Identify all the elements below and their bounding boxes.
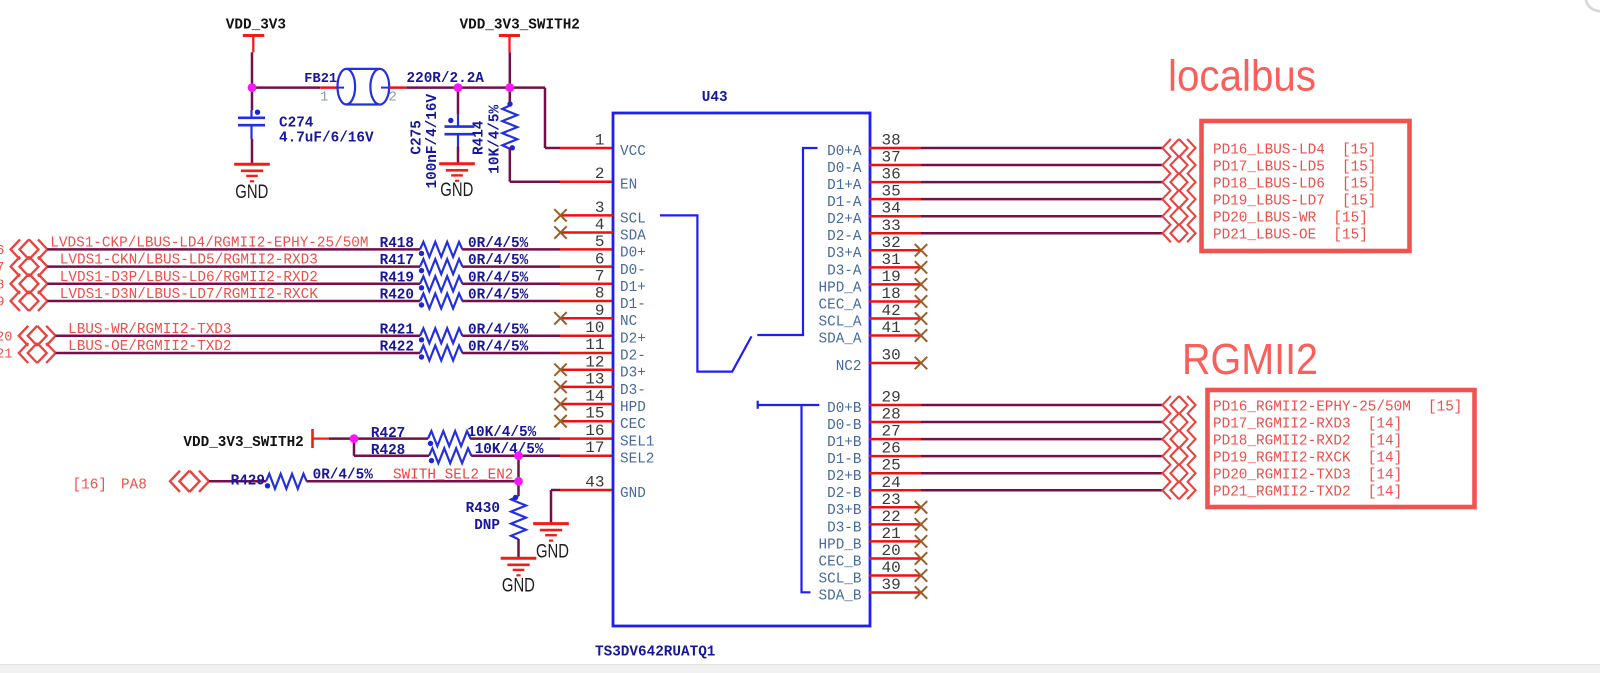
svg-text:D1+: D1+ xyxy=(620,279,646,296)
svg-text:PD16_LBUS-LD4 [15]: PD16_LBUS-LD4 [15] xyxy=(1213,141,1376,158)
svg-text:R419: R419 xyxy=(380,269,414,286)
svg-text:10K/4/5%: 10K/4/5% xyxy=(475,441,545,458)
svg-text:PD18_LBUS-LD6 [15]: PD18_LBUS-LD6 [15] xyxy=(1213,175,1376,192)
svg-text:19: 19 xyxy=(0,295,5,311)
svg-text:1: 1 xyxy=(595,132,605,150)
svg-text:D0-A: D0-A xyxy=(827,160,861,177)
svg-text:D3+A: D3+A xyxy=(827,245,861,262)
svg-text:LVDS1-CKN/LBUS-LD5/RGMII2-RXD3: LVDS1-CKN/LBUS-LD5/RGMII2-RXD3 xyxy=(60,252,318,269)
svg-text:D2-: D2- xyxy=(620,348,646,365)
svg-text:D2+: D2+ xyxy=(620,330,646,347)
svg-text:NC: NC xyxy=(620,313,637,330)
svg-text:PD19_LBUS-LD7 [15]: PD19_LBUS-LD7 [15] xyxy=(1213,192,1376,209)
svg-text:SCL: SCL xyxy=(620,210,646,227)
svg-text:D0+A: D0+A xyxy=(827,143,861,160)
svg-text:PD21_RGMII2-TXD2 [14]: PD21_RGMII2-TXD2 [14] xyxy=(1213,484,1402,501)
svg-text:VCC: VCC xyxy=(620,143,646,160)
svg-text:GND: GND xyxy=(502,576,535,597)
svg-text:17: 17 xyxy=(0,260,5,276)
svg-text:16: 16 xyxy=(0,243,5,259)
svg-text:SCL_A: SCL_A xyxy=(819,313,862,330)
svg-text:10: 10 xyxy=(585,319,604,337)
svg-text:GND: GND xyxy=(440,180,473,201)
svg-text:EN: EN xyxy=(620,177,637,194)
svg-text:NC2: NC2 xyxy=(836,358,862,375)
svg-text:R414: R414 xyxy=(471,121,488,155)
svg-text:D1-: D1- xyxy=(620,296,646,313)
svg-text:D1+A: D1+A xyxy=(827,177,861,194)
svg-text:R429: R429 xyxy=(231,472,265,489)
svg-text:VDD_3V3_SWITH2: VDD_3V3_SWITH2 xyxy=(460,17,580,34)
svg-text:SEL2: SEL2 xyxy=(620,450,654,467)
svg-text:5: 5 xyxy=(595,233,605,251)
svg-text:CEC_A: CEC_A xyxy=(819,296,862,313)
svg-text:R420: R420 xyxy=(380,287,414,304)
svg-text:20: 20 xyxy=(0,329,13,345)
svg-text:RGMII2: RGMII2 xyxy=(1182,335,1318,384)
svg-text:GND: GND xyxy=(536,542,569,563)
svg-text:7: 7 xyxy=(595,268,605,286)
svg-text:D2-A: D2-A xyxy=(827,228,861,245)
svg-text:8: 8 xyxy=(595,285,605,303)
svg-text:D2-B: D2-B xyxy=(827,485,861,502)
svg-text:2: 2 xyxy=(595,165,605,183)
svg-text:R422: R422 xyxy=(380,339,414,356)
svg-text:DNP: DNP xyxy=(474,517,500,534)
svg-text:11: 11 xyxy=(585,336,604,354)
svg-text:R418: R418 xyxy=(380,235,414,252)
svg-text:10K/4/5%: 10K/4/5% xyxy=(487,104,504,174)
svg-text:R428: R428 xyxy=(371,442,405,459)
svg-text:4.7uF/6/16V: 4.7uF/6/16V xyxy=(279,130,374,147)
svg-text:[16]: [16] xyxy=(73,476,107,493)
svg-text:HPD_A: HPD_A xyxy=(819,279,862,296)
svg-text:PD16_RGMII2-EPHY-25/50M [15]: PD16_RGMII2-EPHY-25/50M [15] xyxy=(1213,398,1462,415)
svg-text:SDA_A: SDA_A xyxy=(819,330,862,347)
svg-text:PD18_RGMII2-RXD2 [14]: PD18_RGMII2-RXD2 [14] xyxy=(1213,432,1402,449)
svg-text:PD21_LBUS-OE [15]: PD21_LBUS-OE [15] xyxy=(1213,227,1368,244)
svg-text:VDD_3V3_SWITH2: VDD_3V3_SWITH2 xyxy=(183,434,303,451)
svg-text:U43: U43 xyxy=(702,89,728,106)
svg-text:D2+A: D2+A xyxy=(827,211,861,228)
svg-text:D0-B: D0-B xyxy=(827,417,861,434)
svg-text:SEL1: SEL1 xyxy=(620,433,654,450)
svg-text:2: 2 xyxy=(388,90,397,106)
svg-text:D3+: D3+ xyxy=(620,365,646,382)
svg-text:R421: R421 xyxy=(380,321,414,338)
svg-text:LBUS-OE/RGMII2-TXD2: LBUS-OE/RGMII2-TXD2 xyxy=(68,338,231,355)
svg-text:D0+B: D0+B xyxy=(827,400,861,417)
svg-text:PD17_RGMII2-RXD3 [14]: PD17_RGMII2-RXD3 [14] xyxy=(1213,415,1402,432)
svg-text:CEC: CEC xyxy=(620,416,646,433)
svg-text:1: 1 xyxy=(320,90,329,106)
svg-text:16: 16 xyxy=(585,422,604,440)
svg-text:CEC_B: CEC_B xyxy=(819,553,862,570)
svg-text:100nF/4/16V: 100nF/4/16V xyxy=(424,94,441,189)
svg-text:D3-B: D3-B xyxy=(827,519,861,536)
svg-text:localbus: localbus xyxy=(1168,52,1316,101)
svg-text:TS3DV642RUATQ1: TS3DV642RUATQ1 xyxy=(595,643,715,660)
svg-text:SWITH_SEL2_EN2: SWITH_SEL2_EN2 xyxy=(393,467,513,484)
svg-text:FB21: FB21 xyxy=(304,71,337,87)
svg-text:SCL_B: SCL_B xyxy=(819,570,862,587)
svg-text:PD17_LBUS-LD5 [15]: PD17_LBUS-LD5 [15] xyxy=(1213,158,1376,175)
svg-text:HPD: HPD xyxy=(620,399,646,416)
svg-text:R417: R417 xyxy=(380,252,414,269)
svg-text:SDA: SDA xyxy=(620,227,646,244)
svg-text:D1+B: D1+B xyxy=(827,434,861,451)
svg-text:VDD_3V3: VDD_3V3 xyxy=(226,17,286,34)
svg-text:D2+B: D2+B xyxy=(827,468,861,485)
svg-text:17: 17 xyxy=(585,439,604,457)
svg-text:6: 6 xyxy=(595,250,605,268)
svg-text:LVDS1-CKP/LBUS-LD4/RGMII2-EPHY: LVDS1-CKP/LBUS-LD4/RGMII2-EPHY-25/50M xyxy=(50,234,368,251)
svg-text:R430: R430 xyxy=(466,500,500,517)
svg-text:D3+B: D3+B xyxy=(827,502,861,519)
svg-text:D3-A: D3-A xyxy=(827,262,861,279)
svg-text:LVDS1-D3P/LBUS-LD6/RGMII2-RXD2: LVDS1-D3P/LBUS-LD6/RGMII2-RXD2 xyxy=(60,269,318,286)
svg-text:D3-: D3- xyxy=(620,382,646,399)
svg-text:D0+: D0+ xyxy=(620,245,646,262)
svg-text:SDA_B: SDA_B xyxy=(819,587,862,604)
svg-text:PA8: PA8 xyxy=(121,476,147,493)
svg-text:D1-A: D1-A xyxy=(827,194,861,211)
svg-text:PD20_LBUS-WR [15]: PD20_LBUS-WR [15] xyxy=(1213,210,1368,227)
svg-text:43: 43 xyxy=(585,474,604,492)
svg-text:R427: R427 xyxy=(371,425,405,442)
svg-text:LVDS1-D3N/LBUS-LD7/RGMII2-RXCK: LVDS1-D3N/LBUS-LD7/RGMII2-RXCK xyxy=(60,286,318,303)
svg-text:21: 21 xyxy=(0,347,13,363)
svg-text:C275: C275 xyxy=(409,120,426,154)
svg-text:18: 18 xyxy=(0,277,5,293)
svg-text:LBUS-WR/RGMII2-TXD3: LBUS-WR/RGMII2-TXD3 xyxy=(68,321,231,338)
svg-text:GND: GND xyxy=(235,182,268,203)
svg-text:HPD_B: HPD_B xyxy=(819,536,862,553)
svg-text:PD20_RGMII2-TXD3 [14]: PD20_RGMII2-TXD3 [14] xyxy=(1213,467,1402,484)
svg-text:0R/4/5%: 0R/4/5% xyxy=(313,467,374,484)
svg-text:PD19_RGMII2-RXCK [14]: PD19_RGMII2-RXCK [14] xyxy=(1213,449,1402,466)
svg-text:D1-B: D1-B xyxy=(827,451,861,468)
svg-text:220R/2.2A: 220R/2.2A xyxy=(407,70,484,87)
svg-text:10K/4/5%: 10K/4/5% xyxy=(467,424,537,441)
svg-text:GND: GND xyxy=(620,485,646,502)
svg-text:D0-: D0- xyxy=(620,262,646,279)
